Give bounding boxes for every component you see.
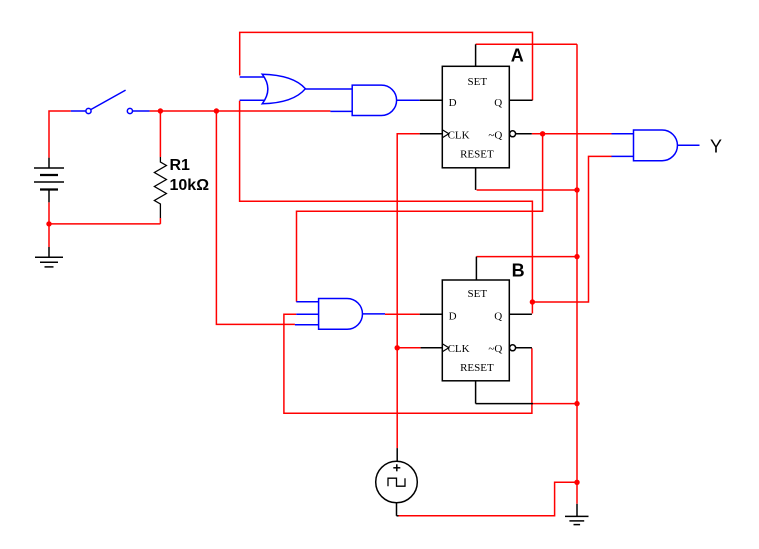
svg-text:CLK: CLK	[448, 130, 470, 142]
svg-text:10kΩ: 10kΩ	[170, 177, 210, 194]
svg-text:RESET: RESET	[460, 362, 494, 374]
svg-text:Q: Q	[494, 310, 502, 322]
svg-text:~Q: ~Q	[488, 343, 502, 355]
svg-text:A: A	[511, 46, 524, 66]
svg-text:RESET: RESET	[460, 148, 494, 160]
svg-text:Q: Q	[494, 97, 502, 109]
svg-text:B: B	[512, 260, 525, 280]
svg-text:D: D	[449, 310, 457, 322]
svg-text:SET: SET	[468, 76, 488, 88]
svg-text:CLK: CLK	[448, 343, 470, 355]
svg-text:~Q: ~Q	[488, 130, 502, 142]
svg-text:D: D	[449, 97, 457, 109]
svg-text:R1: R1	[170, 157, 191, 174]
svg-text:Y: Y	[710, 136, 722, 156]
svg-text:SET: SET	[468, 288, 488, 300]
